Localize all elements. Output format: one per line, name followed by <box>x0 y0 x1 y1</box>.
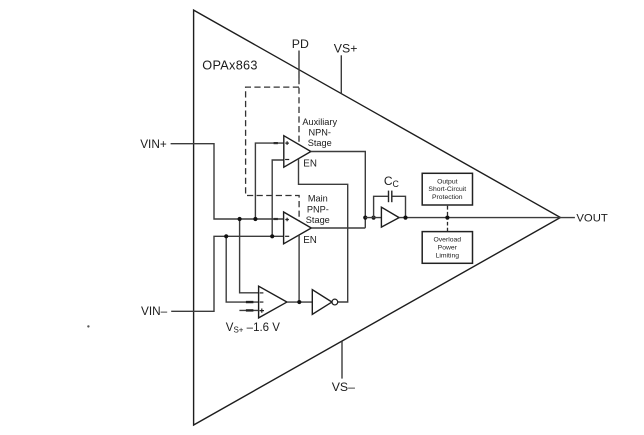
svg-text:VIN+: VIN+ <box>140 137 167 151</box>
wire auxiliary stage output <box>311 152 365 228</box>
label Auxiliary NPN-Stage <box>302 117 337 148</box>
svg-text:C: C <box>393 179 400 189</box>
node buffer output and CC <box>403 216 407 220</box>
pin VIN- label <box>141 304 168 318</box>
capacitor CC label <box>384 174 400 189</box>
label EN (auxiliary) <box>303 159 317 170</box>
label EN (main) <box>303 235 317 246</box>
junction dots on input nets <box>224 217 274 239</box>
pin VS- label <box>332 380 355 394</box>
wire branch to comparator top input <box>240 219 259 293</box>
stray dot mark <box>87 325 89 327</box>
svg-text:Output: Output <box>437 178 458 185</box>
pin VS+ label <box>334 42 358 56</box>
wire merged output to buffer <box>365 217 381 219</box>
svg-text:Power: Power <box>438 245 458 252</box>
wire buffer output to VOUT <box>399 217 575 219</box>
wire branch to auxiliary - input <box>272 160 284 236</box>
svg-text:VIN–: VIN– <box>141 304 168 318</box>
svg-text:VOUT: VOUT <box>576 213 607 225</box>
svg-text:Stage: Stage <box>308 138 332 148</box>
svg-text:Short-Circuit: Short-Circuit <box>428 186 466 193</box>
node output line to protection <box>445 216 449 220</box>
comparator reference stub VS+ -1.6V <box>239 302 258 310</box>
svg-text:Protection: Protection <box>432 194 463 201</box>
svg-text:Limiting: Limiting <box>436 252 460 259</box>
wire VIN+ to noninverting net <box>171 144 284 219</box>
wire VIN- to inverting net <box>171 236 283 311</box>
wire branch to auxiliary + input <box>255 143 283 219</box>
wire comparator output <box>287 301 312 303</box>
wire branch to comparator middle input <box>226 236 258 302</box>
box overload power limiting <box>422 232 472 264</box>
pin VS- lead <box>341 342 343 379</box>
svg-text:Auxiliary: Auxiliary <box>302 117 337 127</box>
pin VIN+ label <box>140 137 167 151</box>
svg-text:Stage: Stage <box>306 215 330 225</box>
svg-text:NPN-: NPN- <box>308 127 330 137</box>
net PD dashed distribution <box>246 78 300 221</box>
pin PD label <box>292 37 309 51</box>
inverter bubble <box>332 299 338 305</box>
svg-text:PD: PD <box>292 37 309 51</box>
node comparator output / main EN <box>297 300 301 304</box>
svg-text:PNP-: PNP- <box>307 204 329 214</box>
wire main stage output <box>311 227 365 229</box>
svg-text:VS–: VS– <box>332 380 355 394</box>
node stage outputs merge <box>363 216 376 220</box>
svg-text:EN: EN <box>303 159 317 170</box>
svg-text:VS+ –1.6 V: VS+ –1.6 V <box>226 322 280 334</box>
svg-text:VS+: VS+ <box>334 42 358 56</box>
buffer amplifier triangle <box>381 207 399 227</box>
svg-text:Main: Main <box>308 194 328 204</box>
device label OPAx863 <box>202 59 257 73</box>
wire auxiliary EN <box>299 159 348 302</box>
pin PD lead (solid) <box>298 51 300 79</box>
pin VOUT label <box>576 213 607 225</box>
box output short-circuit protection <box>422 173 472 205</box>
op-amp U1 outline (big triangle) <box>194 10 561 425</box>
thick patch on aux + wire <box>274 143 278 219</box>
amplifier main PNP stage triangle <box>284 212 312 244</box>
label Main PNP-Stage <box>306 194 330 226</box>
amplifier auxiliary NPN stage triangle <box>284 136 311 168</box>
svg-text:Overload: Overload <box>434 237 462 244</box>
comparator triangle <box>259 286 287 318</box>
capacitor CC with feedback loop <box>374 191 406 218</box>
wire main EN <box>298 235 300 302</box>
svg-text:OPAx863: OPAx863 <box>202 59 257 73</box>
svg-text:EN: EN <box>303 235 317 246</box>
inverter triangle <box>312 290 332 315</box>
label VS+ -1.6 V <box>226 322 280 334</box>
dashed connectors protection boxes <box>447 206 449 232</box>
pin VS+ lead <box>340 55 342 93</box>
